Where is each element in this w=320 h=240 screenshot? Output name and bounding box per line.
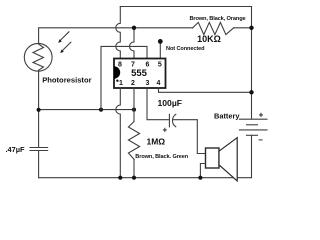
wire pin8 to top rail with hops <box>116 7 121 59</box>
svg-text:8: 8 <box>118 62 122 69</box>
svg-text:Brown, Black. Green: Brown, Black. Green <box>135 154 188 160</box>
photoresistor arrow 2 <box>60 42 71 53</box>
node speaker bottom rail <box>198 176 202 180</box>
wire 10K to right rail <box>234 27 252 29</box>
wire pin1 to bottom rail with hop <box>116 88 121 178</box>
wire top rail V+ <box>120 6 251 8</box>
battery plate long 1 <box>240 118 268 120</box>
wire pin5 stub <box>159 41 161 58</box>
speaker LS1 body <box>206 148 220 168</box>
wire photoresistor top to horizontal bus <box>39 28 193 44</box>
wire photoresistor bottom <box>38 71 40 147</box>
wire 1M to bottom rail <box>133 159 135 178</box>
node 10K right rail junction <box>249 26 253 30</box>
battery plate short 2 <box>247 134 258 136</box>
wire bottom rail <box>39 135 252 177</box>
wire pin2 down <box>133 88 135 122</box>
capacitor C2 100uF plates <box>168 114 170 127</box>
node 1M bottom rail <box>132 176 136 180</box>
node pin4 right rail <box>249 90 253 94</box>
wire pin6 to middle bus <box>101 46 147 109</box>
wire pin3 to 100uF <box>147 88 169 120</box>
svg-text:−: − <box>258 135 263 144</box>
svg-text:Photoresistor: Photoresistor <box>42 75 91 84</box>
photoresistor circle <box>24 43 52 71</box>
svg-text:4: 4 <box>157 80 161 87</box>
wire middle bus pins 2-6-photoresistor <box>39 109 134 111</box>
svg-text:100µF: 100µF <box>158 98 183 108</box>
svg-text:Not Connected: Not Connected <box>166 46 205 52</box>
node pin2 junction <box>132 108 136 112</box>
photoresistor arrow 1 <box>58 32 69 43</box>
svg-text:3: 3 <box>146 80 150 87</box>
svg-text:Battery: Battery <box>214 111 240 120</box>
capacitor C1 .47uF plates <box>30 147 48 149</box>
battery plate short 1 <box>247 124 258 126</box>
resistor R2 1M <box>128 122 139 160</box>
wire 100uF to speaker top <box>173 120 205 154</box>
wire cap to bottom rail <box>38 151 40 178</box>
op-amp U1 555 timer body <box>114 59 166 89</box>
svg-text:Brown, Black, Orange: Brown, Black, Orange <box>189 16 245 22</box>
svg-text:.47µF: .47µF <box>6 145 26 154</box>
speaker cone <box>219 138 237 181</box>
svg-text:10KΩ: 10KΩ <box>197 34 221 44</box>
svg-text:+: + <box>162 125 167 134</box>
resistor R1 10K <box>193 22 234 34</box>
pin 1 dot <box>116 80 118 82</box>
node photoresistor junction <box>37 108 41 112</box>
svg-text:555: 555 <box>131 68 148 79</box>
node pin7 junction <box>132 26 136 30</box>
wire speaker bottom to rail <box>200 164 205 178</box>
wire right rail <box>251 7 253 120</box>
wire pin4 to right rail <box>159 88 252 92</box>
svg-text:+: + <box>259 110 264 119</box>
battery plate long 2 <box>240 129 268 131</box>
node pin6 wire junction <box>99 108 103 112</box>
photoresistor zigzag <box>33 44 44 70</box>
node not-connected dot <box>158 39 163 44</box>
wire pin7 to bus with hop <box>130 28 135 59</box>
node pin1 bottom rail <box>118 176 122 180</box>
555 notch <box>114 66 120 78</box>
svg-text:2: 2 <box>131 80 135 87</box>
svg-text:1: 1 <box>119 80 123 87</box>
svg-text:1MΩ: 1MΩ <box>147 137 166 147</box>
svg-text:5: 5 <box>158 62 162 69</box>
